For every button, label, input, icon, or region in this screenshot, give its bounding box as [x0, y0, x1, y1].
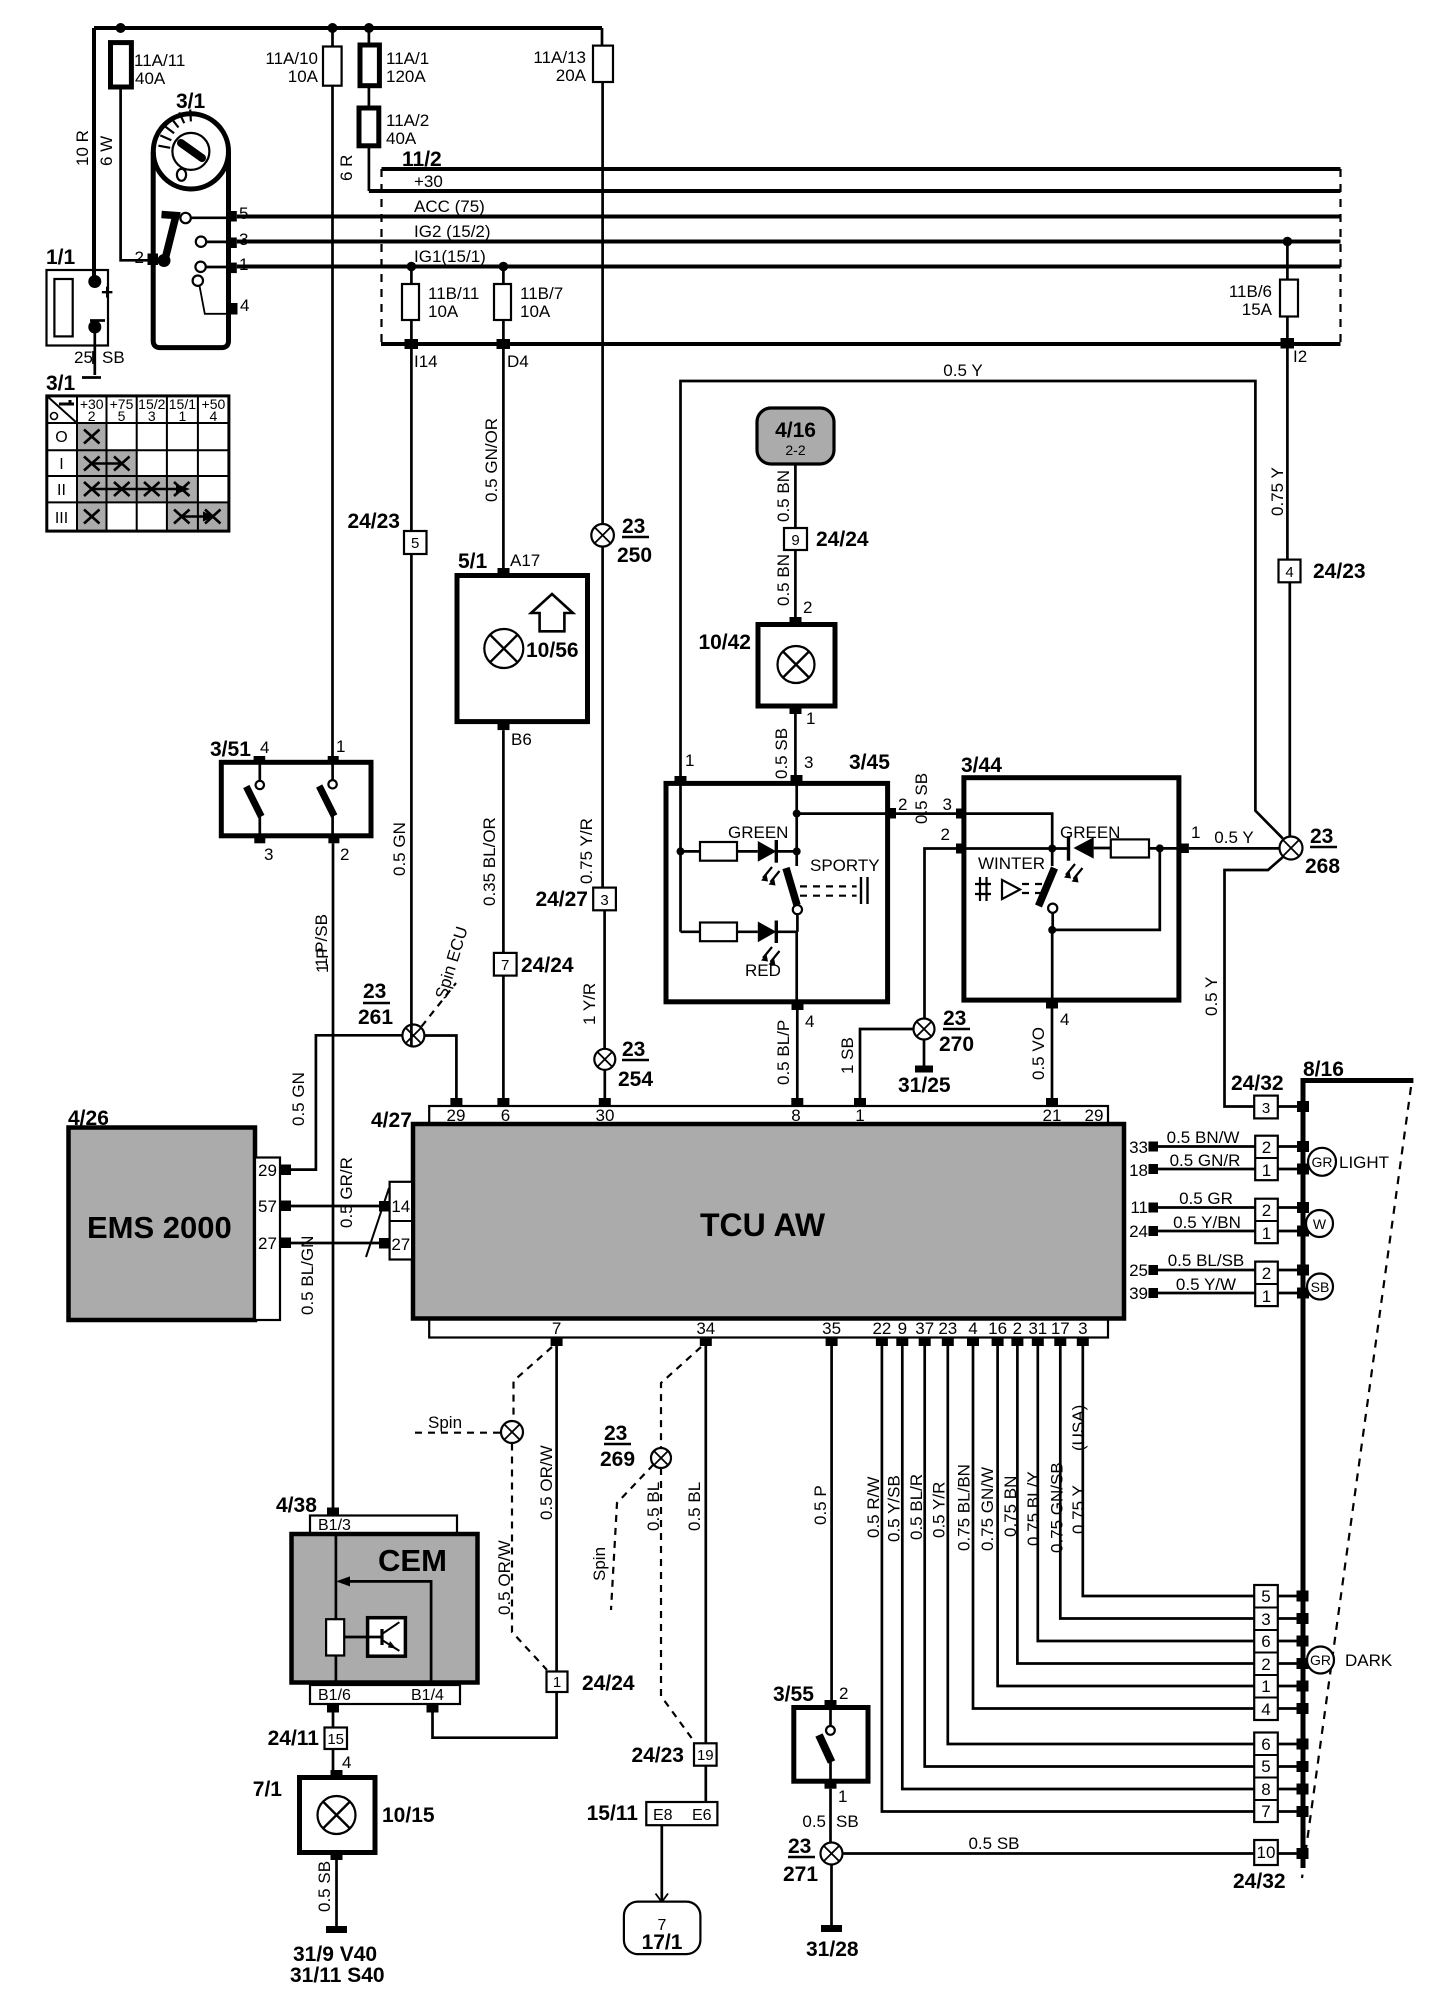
svg-text:4: 4: [805, 1012, 814, 1031]
svg-text:1: 1: [336, 737, 345, 756]
svg-text:0.5 GN/R: 0.5 GN/R: [1170, 1151, 1241, 1170]
ground 31/28: [830, 1865, 833, 1926]
svg-text:4: 4: [1060, 1010, 1069, 1029]
svg-text:31/9 V40: 31/9 V40: [293, 1943, 377, 1966]
svg-text:15/11: 15/11: [587, 1802, 639, 1825]
svg-text:15A: 15A: [1242, 300, 1273, 319]
svg-text:29: 29: [258, 1161, 277, 1180]
svg-text:31/28: 31/28: [806, 1938, 859, 1961]
svg-text:0.75 GN/SB: 0.75 GN/SB: [1048, 1462, 1067, 1553]
svg-text:0.5 Y: 0.5 Y: [943, 361, 982, 380]
svg-text:1 Y/R: 1 Y/R: [580, 983, 599, 1025]
svg-text:24/24: 24/24: [521, 954, 574, 977]
svg-text:W: W: [1313, 1216, 1327, 1232]
svg-text:Spin: Spin: [590, 1547, 609, 1581]
svg-text:4: 4: [260, 738, 269, 757]
svg-text:3: 3: [600, 892, 608, 909]
wire 0.5 Y splice out to 24/32 pin 3: [1225, 857, 1284, 1107]
wire 0.5 GR pin 11: [1158, 1206, 1255, 1209]
wire 0.5 GN/R pin 18: [1158, 1168, 1255, 1171]
wire 6 R to +30: [368, 146, 371, 191]
svg-text:11A/1: 11A/1: [386, 49, 429, 68]
svg-text:23: 23: [1310, 825, 1333, 848]
svg-text:B1/6: B1/6: [318, 1687, 351, 1704]
wire from 11A/13 down across bus: [601, 28, 604, 524]
svg-text:0.5 Y: 0.5 Y: [1214, 828, 1253, 847]
svg-text:34: 34: [696, 1319, 715, 1338]
wire EMS 57 to TCU 14: [291, 1205, 380, 1208]
wire 0.5 BN: [794, 550, 797, 617]
svg-text:4/16: 4/16: [775, 419, 816, 442]
svg-text:1: 1: [1261, 1677, 1270, 1696]
connector 17/1: [624, 1902, 701, 1955]
twisted pair slash: [366, 1188, 389, 1257]
svg-text:11A/2: 11A/2: [386, 111, 429, 130]
svg-text:24/32: 24/32: [1233, 1870, 1286, 1893]
node SB: [1307, 1274, 1333, 1300]
wire IG1 (15/1): [237, 265, 1341, 269]
node GR LIGHT: [1308, 1148, 1336, 1176]
svg-text:24/23: 24/23: [631, 1744, 684, 1767]
wire Spin ECU dashed: [422, 983, 457, 1027]
connector 2/1 light: [1255, 1136, 1278, 1181]
connector 24/32 upper group: [1254, 1585, 1278, 1720]
svg-text:6: 6: [1261, 1735, 1270, 1754]
svg-text:4/27: 4/27: [371, 1109, 412, 1132]
svg-text:24/23: 24/23: [347, 510, 400, 533]
svg-text:24: 24: [1129, 1222, 1148, 1241]
svg-text:271: 271: [783, 1863, 818, 1886]
svg-text:2: 2: [340, 845, 349, 864]
svg-text:11A/11: 11A/11: [134, 51, 185, 70]
svg-text:B1/3: B1/3: [318, 1517, 351, 1534]
lamp 10/42: [790, 617, 802, 625]
svg-text:10: 10: [1257, 1843, 1276, 1862]
svg-text:0.75 BL/BN: 0.75 BL/BN: [955, 1464, 974, 1551]
svg-text:23: 23: [622, 1038, 645, 1061]
connector 24/27 pin 3: [593, 888, 616, 911]
svg-text:10A: 10A: [428, 302, 459, 321]
svg-text:4: 4: [1285, 564, 1293, 581]
svg-text:1: 1: [1191, 823, 1200, 842]
wire 0.5 BN/W pin 33: [1158, 1145, 1255, 1148]
svg-text:1: 1: [838, 1787, 847, 1806]
svg-text:11B/6: 11B/6: [1229, 282, 1272, 301]
wires TCU bottom pins to 24/32 lower: [948, 1346, 1254, 1744]
svg-text:23: 23: [938, 1319, 957, 1338]
svg-text:17/1: 17/1: [642, 1931, 683, 1954]
svg-text:270: 270: [939, 1033, 974, 1056]
svg-text:0.75 Y/R: 0.75 Y/R: [577, 818, 596, 884]
ground 25 SB: [82, 376, 101, 379]
connector 24/24 pin 9: [784, 528, 807, 550]
svg-text:0.5 SB: 0.5 SB: [968, 1834, 1019, 1853]
svg-text:1 SB: 1 SB: [838, 1037, 857, 1074]
svg-text:254: 254: [618, 1068, 653, 1091]
wire 0.5 SB to splice 23/270: [925, 849, 957, 1020]
svg-text:0.5 GN: 0.5 GN: [289, 1072, 308, 1126]
svg-text:33: 33: [1129, 1138, 1148, 1157]
svg-text:24/32: 24/32: [1231, 1072, 1284, 1095]
svg-text:16: 16: [988, 1319, 1007, 1338]
wire 0.75 Y/R: [601, 547, 604, 888]
svg-text:261: 261: [358, 1006, 393, 1029]
svg-text:3: 3: [148, 408, 156, 424]
svg-text:3/51: 3/51: [210, 738, 251, 761]
wire 0.5 VO to TCU pin 21: [1051, 1009, 1054, 1100]
svg-text:0.35 BL/OR: 0.35 BL/OR: [480, 817, 499, 906]
wire E8 to 17/1: [660, 1825, 663, 1901]
svg-text:SPORTY: SPORTY: [810, 856, 880, 875]
svg-text:0.75 GN/W: 0.75 GN/W: [978, 1467, 997, 1551]
svg-text:E8: E8: [653, 1807, 673, 1824]
svg-text:18: 18: [1129, 1161, 1148, 1180]
svg-text:1/1: 1/1: [46, 246, 76, 269]
svg-text:0.5 BN: 0.5 BN: [774, 554, 793, 606]
svg-text:+30: +30: [414, 172, 443, 191]
svg-text:11B/7: 11B/7: [520, 284, 563, 303]
svg-text:0.75 BN: 0.75 BN: [1001, 1476, 1020, 1537]
wire B1/6 to 24/11: [332, 1713, 335, 1728]
wire 1 Y/R: [603, 910, 606, 1049]
wire 1 P: [331, 28, 334, 758]
svg-text:24/27: 24/27: [535, 888, 588, 911]
svg-text:40A: 40A: [386, 129, 417, 148]
3/45 internals: [679, 783, 682, 931]
svg-text:ACC (75): ACC (75): [414, 197, 485, 216]
svg-text:269: 269: [600, 1448, 635, 1471]
wire B1/4 to 24/24 pin 1: [433, 1692, 557, 1738]
svg-text:0.5 OR/W: 0.5 OR/W: [537, 1445, 556, 1520]
svg-text:11: 11: [1130, 1198, 1148, 1217]
svg-text:A17: A17: [510, 551, 540, 570]
wire 0.5 BN: [794, 464, 797, 528]
switch 3/55: [830, 1346, 833, 1700]
wire 0.5 Y/BN pin 24: [1158, 1230, 1255, 1233]
connector 24/24 pin 1: [547, 1672, 568, 1693]
svg-text:24/24: 24/24: [816, 528, 869, 551]
svg-text:0.5 GR/R: 0.5 GR/R: [337, 1157, 356, 1228]
svg-text:1 P/SB: 1 P/SB: [312, 914, 331, 967]
fuse 11A/10 10A: [323, 47, 342, 86]
node GR DARK: [1307, 1647, 1334, 1674]
wire between fuses: [368, 28, 371, 108]
svg-text:4: 4: [342, 1753, 351, 1772]
fuse 11A/13 20A: [593, 46, 613, 82]
svg-text:5: 5: [1261, 1587, 1270, 1606]
svg-text:0.5 Y/BN: 0.5 Y/BN: [1173, 1213, 1241, 1232]
contact pin 1: [228, 263, 237, 274]
node junction dots on rail: [116, 23, 126, 33]
svg-text:O: O: [55, 429, 67, 446]
svg-text:25: 25: [1129, 1261, 1148, 1280]
wire +30: [369, 189, 1341, 193]
ground 31/25: [923, 1040, 926, 1067]
svg-text:6 R: 6 R: [337, 155, 356, 181]
svg-text:0.5: 0.5: [802, 1812, 826, 1831]
svg-text:E6: E6: [692, 1807, 712, 1824]
wire 1 SB to TCU pin 1: [860, 1029, 914, 1099]
wire 0.5 Y long run from 3/45 pin 1: [681, 381, 1283, 839]
svg-text:7/1: 7/1: [253, 1778, 283, 1801]
svg-text:31: 31: [1028, 1319, 1047, 1338]
svg-text:2: 2: [88, 408, 96, 424]
svg-text:9: 9: [898, 1319, 907, 1338]
svg-text:11B/11: 11B/11: [428, 284, 479, 303]
svg-text:1: 1: [806, 709, 815, 728]
svg-text:3/55: 3/55: [773, 1683, 814, 1706]
svg-text:10/15: 10/15: [382, 1804, 435, 1827]
svg-text:250: 250: [617, 544, 652, 567]
connector 24/32 lower group: [1254, 1733, 1278, 1823]
svg-text:24/11: 24/11: [268, 1727, 320, 1750]
wire 0.5 Y from 3/44 pin 1: [1189, 847, 1280, 850]
wire 0.35 BL/OR: [502, 730, 505, 1099]
fuse 11B/7 10A: [499, 262, 509, 272]
TCU bottom strip: [429, 1319, 1108, 1338]
svg-text:0.5 Y/SB: 0.5 Y/SB: [885, 1475, 904, 1542]
svg-text:0.5 BL/SB: 0.5 BL/SB: [1168, 1251, 1245, 1270]
svg-text:6 W: 6 W: [97, 136, 116, 166]
svg-text:11A/10: 11A/10: [265, 49, 318, 68]
svg-text:0.75 Y: 0.75 Y: [1069, 1485, 1088, 1534]
svg-text:(USA): (USA): [1069, 1405, 1088, 1451]
svg-text:0.5 BN/W: 0.5 BN/W: [1167, 1128, 1240, 1147]
wire splice to TCU pin 29: [424, 1036, 456, 1100]
svg-text:22: 22: [872, 1319, 891, 1338]
svg-text:35: 35: [822, 1319, 841, 1338]
svg-text:10/56: 10/56: [526, 639, 579, 662]
svg-text:3: 3: [1261, 1610, 1270, 1629]
svg-text:0.5 BL/GN: 0.5 BL/GN: [298, 1236, 317, 1315]
svg-text:SB: SB: [1311, 1279, 1330, 1295]
svg-text:CEM: CEM: [378, 1543, 447, 1578]
svg-text:23: 23: [363, 980, 386, 1003]
svg-text:6: 6: [1261, 1632, 1270, 1651]
fuse 11A/2 40A: [359, 108, 379, 146]
svg-text:268: 268: [1305, 855, 1340, 878]
splice 23/254: [594, 1049, 615, 1070]
svg-text:8/16: 8/16: [1303, 1058, 1344, 1081]
svg-text:SB: SB: [836, 1812, 859, 1831]
svg-text:23: 23: [788, 1835, 811, 1858]
3/44 internals: [966, 814, 1052, 866]
svg-text:1: 1: [553, 1674, 561, 1691]
svg-text:1: 1: [1262, 1161, 1271, 1180]
svg-text:15: 15: [327, 1731, 344, 1748]
svg-text:9: 9: [791, 532, 799, 549]
svg-text:0.5 GN/OR: 0.5 GN/OR: [482, 418, 501, 502]
connector 4/16: [757, 408, 834, 464]
wire 0.5 BL/SB pin 25: [1158, 1269, 1255, 1272]
TCU right pins: [1129, 1138, 1148, 1303]
svg-text:II: II: [57, 482, 66, 499]
wire 0.5 SB between 3/45 and 3/44: [896, 812, 956, 815]
svg-text:4/38: 4/38: [276, 1494, 317, 1517]
svg-text:0.75 BL/Y: 0.75 BL/Y: [1024, 1471, 1043, 1546]
svg-text:1: 1: [685, 751, 694, 770]
splice 23/269 with spin branch pin 34: [661, 1347, 701, 1448]
svg-text:10A: 10A: [520, 302, 551, 321]
wire 10 R battery feed: [92, 28, 96, 278]
svg-text:I: I: [59, 456, 63, 473]
svg-text:2: 2: [1262, 1264, 1271, 1283]
svg-text:0.5 BN: 0.5 BN: [774, 470, 793, 522]
wire 0.5 GN: [410, 554, 413, 1025]
svg-text:20A: 20A: [556, 66, 587, 85]
svg-text:LIGHT: LIGHT: [1339, 1153, 1389, 1172]
svg-text:I14: I14: [414, 352, 438, 371]
svg-text:0.5 SB: 0.5 SB: [912, 773, 931, 824]
splice 23/271: [821, 1843, 843, 1865]
svg-text:2: 2: [803, 598, 812, 617]
svg-text:24/23: 24/23: [1313, 560, 1366, 583]
svg-text:I2: I2: [1293, 347, 1307, 366]
svg-text:0.5 BL/P: 0.5 BL/P: [774, 1020, 793, 1085]
svg-text:2: 2: [1261, 1655, 1270, 1674]
svg-text:5: 5: [411, 535, 419, 552]
svg-text:5: 5: [118, 408, 126, 424]
svg-text:2: 2: [135, 248, 144, 267]
svg-text:+: +: [101, 281, 113, 304]
svg-text:3: 3: [1262, 1100, 1270, 1117]
svg-text:40A: 40A: [135, 69, 166, 88]
wire 0.5 SB: [794, 714, 797, 775]
svg-text:31/11 S40: 31/11 S40: [290, 1964, 385, 1987]
svg-text:4: 4: [240, 296, 249, 315]
svg-text:19: 19: [697, 1747, 714, 1764]
svg-text:2: 2: [941, 825, 950, 844]
wire splice to EMS pin 29: [291, 1035, 403, 1169]
svg-text:11A/13: 11A/13: [533, 48, 586, 67]
svg-text:5/1: 5/1: [458, 550, 488, 573]
svg-text:10/42: 10/42: [698, 631, 751, 654]
svg-text:2: 2: [898, 795, 907, 814]
svg-text:GR: GR: [1312, 1154, 1333, 1170]
contact pin 3: [228, 238, 237, 249]
svg-text:10A: 10A: [288, 67, 319, 86]
svg-text:0.5 VO: 0.5 VO: [1029, 1027, 1048, 1080]
wire 0.5 Y/W pin 39: [1158, 1292, 1255, 1295]
svg-text:39: 39: [1129, 1284, 1148, 1303]
connector 2/1 SB: [1255, 1262, 1278, 1307]
svg-text:120A: 120A: [386, 67, 426, 86]
svg-text:5: 5: [239, 204, 248, 223]
svg-text:1: 1: [1262, 1224, 1271, 1243]
wires TCU bottom pins to 24/32 upper: [1083, 1346, 1254, 1596]
wire top power rail: [94, 26, 602, 30]
svg-text:7: 7: [1261, 1802, 1270, 1821]
svg-text:14: 14: [391, 1197, 410, 1216]
fuse 11B/6 15A: [1283, 237, 1293, 247]
svg-text:3/44: 3/44: [961, 754, 1002, 777]
svg-text:B6: B6: [511, 730, 532, 749]
svg-text:23: 23: [943, 1007, 966, 1030]
svg-text:1: 1: [1262, 1287, 1271, 1306]
svg-text:7: 7: [552, 1319, 561, 1338]
svg-text:3: 3: [1078, 1319, 1087, 1338]
svg-text:D4: D4: [507, 352, 529, 371]
svg-text:0.5 BL: 0.5 BL: [685, 1482, 704, 1531]
svg-text:1: 1: [179, 408, 187, 424]
svg-text:0.5 SB: 0.5 SB: [772, 728, 791, 779]
svg-text:Spin: Spin: [428, 1413, 462, 1432]
svg-text:TCU AW: TCU AW: [700, 1207, 826, 1243]
svg-text:0.5 Y/W: 0.5 Y/W: [1176, 1275, 1236, 1294]
svg-text:2: 2: [1262, 1138, 1271, 1157]
wire 1 P/SB: [332, 843, 335, 1507]
svg-text:4: 4: [968, 1319, 977, 1338]
svg-text:5: 5: [1261, 1757, 1270, 1776]
svg-text:7: 7: [501, 957, 509, 974]
svg-text:0.5 SB: 0.5 SB: [315, 1861, 334, 1912]
splice 23/261: [402, 1025, 424, 1047]
svg-text:3: 3: [943, 795, 952, 814]
connector 2/1 W: [1255, 1199, 1278, 1244]
wire 0.5 SB to 24/32 pin 10: [843, 1852, 1255, 1855]
svg-text:0.5 P: 0.5 P: [811, 1485, 830, 1525]
ignition rotor / pin 2: [148, 254, 159, 266]
svg-text:0.5 BL/R: 0.5 BL/R: [907, 1474, 926, 1540]
svg-text:SB: SB: [102, 348, 125, 367]
svg-text:RED: RED: [745, 961, 781, 980]
svg-text:8: 8: [1261, 1780, 1270, 1799]
svg-text:24/24: 24/24: [582, 1672, 635, 1695]
contact pin 5: [228, 211, 237, 222]
svg-text:0.5 GN: 0.5 GN: [390, 822, 409, 876]
wire IG2 (15/2): [237, 240, 1341, 244]
svg-text:10 R: 10 R: [73, 130, 92, 166]
splice 23/268: [1280, 837, 1303, 860]
svg-text:0.5 Y/R: 0.5 Y/R: [930, 1482, 949, 1538]
svg-text:0.5 GR: 0.5 GR: [1179, 1189, 1233, 1208]
svg-text:2-2: 2-2: [785, 442, 805, 458]
wire 0.5 BL/P to TCU pin 8: [796, 1010, 799, 1099]
svg-text:WINTER: WINTER: [978, 854, 1045, 873]
svg-text:31/25: 31/25: [898, 1074, 951, 1097]
svg-text:37: 37: [915, 1319, 934, 1338]
svg-text:23: 23: [604, 1422, 627, 1445]
svg-text:B1/4: B1/4: [411, 1687, 444, 1704]
svg-text:2: 2: [1013, 1319, 1022, 1338]
relay module CEM 4/38: [327, 1508, 339, 1516]
svg-text:2: 2: [1262, 1201, 1271, 1220]
svg-text:GREEN: GREEN: [728, 823, 788, 842]
svg-text:27: 27: [391, 1235, 410, 1254]
svg-text:17: 17: [1051, 1319, 1070, 1338]
svg-text:0.75 Y: 0.75 Y: [1268, 467, 1287, 516]
svg-text:3/45: 3/45: [849, 751, 890, 774]
wire 0.5 OR/W TCU pin 7: [555, 1346, 558, 1672]
svg-text:DARK: DARK: [1345, 1651, 1393, 1670]
connector 24/32 pin 10: [1254, 1840, 1278, 1865]
svg-text:0.5 Y: 0.5 Y: [1202, 977, 1221, 1016]
svg-text:III: III: [55, 510, 68, 527]
wire 6 W: [121, 87, 150, 260]
splice 23/270: [914, 1019, 935, 1040]
svg-text:3: 3: [264, 845, 273, 864]
svg-text:EMS 2000: EMS 2000: [87, 1210, 232, 1245]
svg-text:2: 2: [839, 1684, 848, 1703]
fuse 11A/1 120A: [360, 45, 379, 86]
svg-text:4: 4: [210, 408, 218, 424]
svg-text:3/1: 3/1: [46, 372, 76, 395]
dashed spin branch pin 7: [514, 1347, 553, 1421]
wire 0.5 SB to ground: [335, 1860, 338, 1926]
connector 24/23 pin 4: [1279, 560, 1301, 583]
svg-text:27: 27: [258, 1234, 277, 1253]
TCU left pins 14 27: [390, 1182, 413, 1260]
